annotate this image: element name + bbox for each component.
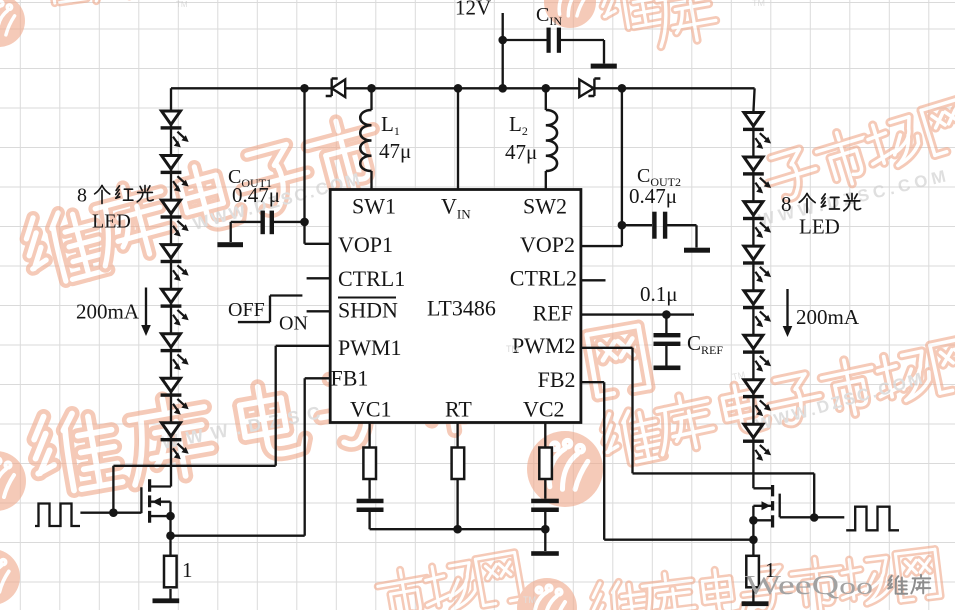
svg-text:TM: TM (176, 0, 188, 9)
svg-text:0.47μ: 0.47μ (232, 183, 280, 207)
svg-text:47μ: 47μ (505, 140, 537, 164)
svg-text:VOP2: VOP2 (520, 232, 575, 257)
svg-text:SW1: SW1 (352, 194, 396, 219)
svg-text:PWM2: PWM2 (512, 333, 576, 358)
svg-text:RT: RT (445, 397, 472, 422)
svg-text:FB2: FB2 (538, 367, 576, 392)
svg-text:TM: TM (523, 595, 536, 605)
svg-text:TM: TM (506, 344, 519, 354)
svg-text:SHDN: SHDN (338, 298, 398, 323)
svg-text:OFF: OFF (228, 299, 265, 321)
svg-text:8: 8 (781, 192, 792, 216)
svg-text:LED: LED (92, 211, 131, 233)
svg-text:VC1: VC1 (350, 397, 392, 422)
svg-text:200mA: 200mA (796, 305, 860, 329)
svg-text:REF: REF (533, 301, 573, 326)
svg-text:8: 8 (77, 185, 87, 207)
svg-text:FB1: FB1 (331, 366, 369, 391)
svg-text:CTRL1: CTRL1 (338, 266, 405, 291)
svg-text:WeeQoo: WeeQoo (745, 570, 873, 600)
svg-text:1: 1 (182, 558, 193, 582)
svg-text:CTRL2: CTRL2 (510, 266, 577, 291)
svg-text:12V: 12V (455, 0, 491, 20)
svg-text:VC2: VC2 (523, 397, 565, 422)
svg-text:47μ: 47μ (379, 139, 411, 163)
svg-text:TM: TM (752, 0, 765, 8)
svg-text:PWM1: PWM1 (338, 335, 402, 360)
svg-text:LED: LED (799, 215, 840, 239)
svg-text:200mA: 200mA (76, 300, 140, 324)
svg-text:ON: ON (279, 313, 308, 335)
svg-text:SW2: SW2 (523, 194, 567, 219)
svg-text:VOP1: VOP1 (338, 232, 393, 257)
svg-text:0.1μ: 0.1μ (640, 282, 678, 306)
svg-text:0.47μ: 0.47μ (629, 184, 677, 208)
svg-text:LT3486: LT3486 (427, 296, 496, 321)
